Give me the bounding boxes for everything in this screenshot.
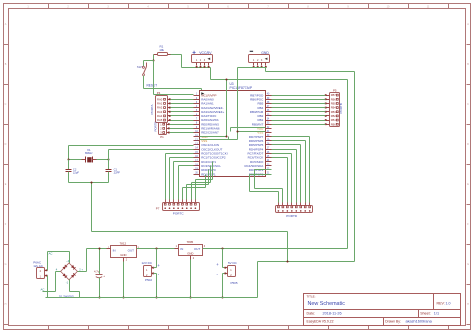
svg-text:RA0: RA0 (157, 97, 163, 101)
node P502 gnd (156, 297, 158, 299)
svg-text:PORTD: PORTD (286, 214, 298, 218)
wire P502 plus (154, 249, 157, 268)
wire MCLR (154, 61, 194, 95)
wire junction to SW1 (144, 61, 154, 67)
svg-text:1.0: 1.0 (446, 301, 451, 305)
svg-text:IN: IN (180, 247, 183, 251)
wire GND right wrap (258, 72, 355, 298)
wire U2 gnd (175, 249, 207, 298)
svg-text:5V DC: 5V DC (228, 261, 238, 265)
connector P5 PORTB (325, 88, 343, 126)
node 12V tap (156, 248, 158, 250)
svg-text:AC: AC (49, 252, 53, 256)
wire R1 left to junction (153, 55, 155, 61)
wire ground bus (46, 297, 258, 299)
svg-text:REV:: REV: (437, 301, 445, 305)
svg-text:P4: P4 (157, 91, 161, 95)
connector P502 12V DC (142, 261, 161, 282)
svg-text:22PF: 22PF (114, 171, 121, 175)
connector P505 5V DC (216, 261, 238, 285)
svg-text:RA2: RA2 (157, 106, 163, 110)
wire 12V rail (137, 248, 179, 250)
svg-text:EasyEDA V5.9.22: EasyEDA V5.9.22 (307, 320, 334, 324)
wire PORTD staircase (250, 137, 310, 203)
svg-text:10k: 10k (159, 48, 164, 52)
svg-text:H: H (467, 303, 469, 306)
svg-text:4.7u: 4.7u (94, 270, 100, 274)
wire VCC to VDD pin 11 (200, 80, 229, 140)
connector GND (249, 51, 270, 68)
svg-text:D: D (467, 143, 469, 146)
wire R1 right to VCC pins (171, 55, 211, 68)
svg-text:P5: P5 (333, 88, 337, 92)
wire 5V rail (203, 248, 348, 250)
connector P4 PORTA (150, 91, 171, 123)
svg-text:RB4: RB4 (331, 106, 337, 110)
svg-text:PORTC: PORTC (173, 211, 185, 215)
wire VCC rail (211, 68, 348, 80)
svg-text:D: D (5, 143, 7, 146)
capacitor C1 (106, 160, 121, 183)
svg-text:PIC16F877A/P: PIC16F877A/P (230, 86, 253, 90)
node U2 gnd (190, 297, 192, 299)
svg-text:P7: P7 (156, 206, 160, 210)
svg-text:RESET: RESET (147, 83, 158, 87)
svg-text:P502: P502 (145, 278, 152, 282)
node X1 right (108, 159, 110, 161)
node 5V tap (222, 248, 224, 250)
svg-text:Sheet:: Sheet: (420, 312, 430, 316)
capacitor C3 4.7u (94, 249, 105, 298)
svg-text:RA5: RA5 (157, 118, 163, 122)
node VSS junction (237, 131, 239, 133)
wire U3 to PORTB (272, 96, 326, 125)
node MCLR junction (153, 60, 155, 62)
node U1 gnd (123, 297, 125, 299)
wire P502 minus (154, 274, 157, 298)
node P505 gnd (222, 297, 224, 299)
svg-text:Date:: Date: (307, 312, 316, 316)
svg-text:OUT: OUT (128, 249, 135, 253)
connector VCC/5V (192, 50, 213, 68)
node VDD junction (226, 136, 228, 138)
svg-text:RA4: RA4 (157, 114, 163, 118)
svg-text:RB3: RB3 (331, 110, 337, 114)
node crystal gnd (91, 182, 93, 184)
svg-text:2018-11-26: 2018-11-26 (323, 312, 342, 316)
svg-text:P505: P505 (231, 281, 238, 285)
svg-text:RA3: RA3 (157, 110, 163, 114)
wire AC lower (43, 272, 61, 298)
diode bridge D1 (56, 259, 84, 285)
wire P505 minus (223, 274, 225, 298)
svg-text:RB0: RB0 (331, 122, 337, 126)
node VCC rail junction (226, 79, 228, 81)
svg-text:RB5: RB5 (331, 102, 337, 106)
svg-text:PORTE: PORTE (154, 122, 158, 132)
wire GND to VSS pins (231, 68, 266, 140)
svg-text:akash1609rana: akash1609rana (406, 320, 433, 324)
wire OSC1 (69, 146, 194, 160)
wire bridge plus (78, 249, 111, 272)
svg-text:P1: P1 (160, 135, 164, 139)
svg-text:PORTA: PORTA (150, 104, 154, 114)
svg-text:Drawn By:: Drawn By: (385, 320, 401, 324)
svg-text:PORTB: PORTB (339, 103, 343, 113)
svg-text:8MHz: 8MHz (85, 151, 93, 155)
wire OSC2 (109, 150, 194, 160)
svg-text:H: H (5, 303, 7, 306)
svg-text:G: G (5, 263, 7, 266)
capacitor C2 (66, 160, 80, 183)
connector P1 PORTE (154, 122, 170, 139)
svg-text:C: C (467, 103, 469, 106)
switch SW1 (137, 63, 147, 76)
wire bridge minus (70, 280, 80, 298)
wire AC upper (48, 252, 70, 271)
node gnd link (287, 261, 289, 263)
svg-text:RB7: RB7 (331, 93, 337, 97)
crystal X1 (69, 148, 109, 162)
wire crystal ground (69, 183, 288, 262)
wire SW1 bottom to RESET net (144, 76, 202, 140)
wire VCC right wrap (347, 80, 349, 249)
svg-text:C: C (5, 103, 7, 106)
title block (304, 294, 461, 326)
svg-text:22pF: 22pF (73, 171, 79, 175)
regulator U1 7812 (108, 241, 140, 261)
IC U3 PIC16F877A/P (194, 82, 272, 176)
svg-text:GND: GND (120, 253, 126, 257)
svg-text:RB6: RB6 (331, 97, 337, 101)
connector P6AC (33, 260, 47, 278)
wire PORTE to U3 (170, 125, 194, 133)
svg-text:GND: GND (187, 252, 193, 256)
svg-text:1/1: 1/1 (434, 312, 439, 316)
svg-text:AC: AC (41, 288, 45, 292)
regulator U2 7805 (176, 240, 206, 260)
wire GND rail (238, 68, 355, 72)
svg-text:RA1: RA1 (157, 102, 163, 106)
connector P8 PORTD (276, 203, 313, 219)
svg-text:12V DC: 12V DC (142, 261, 153, 265)
svg-text:+: + (192, 50, 196, 57)
svg-text:OUT: OUT (194, 247, 201, 251)
svg-text:RB2: RB2 (331, 114, 337, 118)
node cap top (99, 248, 101, 250)
wire PORTA to U3 (171, 100, 194, 121)
svg-text:New Schematic: New Schematic (308, 301, 346, 307)
wire PORTC risers (166, 154, 213, 200)
svg-text:TITLE:: TITLE: (307, 295, 316, 299)
svg-text:7805: 7805 (187, 240, 194, 244)
svg-text:+: + (103, 274, 105, 278)
svg-text:G: G (467, 263, 469, 266)
resistor R1 (154, 45, 171, 56)
wire VSS row (200, 139, 238, 141)
node cap bottom (99, 297, 101, 299)
node X1 left (68, 159, 70, 161)
svg-text:IN: IN (113, 249, 116, 253)
connector P7 PORTC (156, 200, 200, 216)
svg-text:7812: 7812 (120, 241, 127, 245)
svg-text:RB1: RB1 (331, 118, 337, 122)
wire P505 plus (223, 249, 225, 268)
wire U1 gnd (107, 249, 141, 298)
